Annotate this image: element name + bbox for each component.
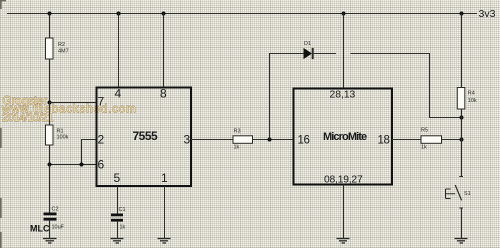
- svg-text:5: 5: [114, 171, 121, 185]
- svg-text:D1: D1: [304, 41, 311, 47]
- svg-text:10uF: 10uF: [52, 225, 65, 231]
- svg-text:R1: R1: [57, 128, 64, 134]
- node D1/R4 junction: [460, 116, 464, 120]
- ground (C1): [111, 239, 124, 244]
- node pin6/R1/C2 junction: [48, 163, 52, 167]
- wire pin7 to 7555: [50, 102, 97, 104]
- ground (C2): [43, 239, 57, 244]
- svg-text:1k: 1k: [234, 144, 240, 150]
- capacitor C1: [111, 207, 126, 230]
- ground (7555 pin1): [158, 239, 171, 244]
- wire junction up to diode: [270, 54, 304, 140]
- node R5/column junction: [460, 138, 464, 142]
- svg-text:28,13: 28,13: [330, 90, 356, 101]
- node rail/R2 junction: [48, 12, 52, 16]
- svg-text:6: 6: [98, 158, 105, 172]
- svg-text:10k: 10k: [468, 98, 477, 104]
- wire rail to MicroMite 28,13: [343, 14, 345, 89]
- capacitor C2: [44, 207, 65, 231]
- wire R1 bottom to pin6 wire: [49, 145, 51, 165]
- wire pin18 to R5: [392, 139, 421, 141]
- wire rail to pin4: [118, 14, 120, 88]
- svg-text:R4: R4: [468, 91, 475, 97]
- wire MicroMite bottom to ground: [343, 185, 345, 239]
- svg-text:4M7: 4M7: [58, 49, 69, 55]
- diode D1: [304, 41, 313, 59]
- resistor R5: [421, 128, 442, 151]
- resistor R3: [233, 128, 253, 150]
- svg-text:R2: R2: [58, 42, 65, 48]
- wire R3 to MicroMite pin16: [253, 139, 294, 141]
- wire rail to pin8: [163, 14, 165, 88]
- node rail/pin8 junction: [162, 12, 166, 16]
- wire diode cathode right and down: [314, 54, 462, 118]
- ground (MicroMite): [337, 239, 350, 244]
- svg-text:7555: 7555: [133, 129, 159, 143]
- svg-text:S1: S1: [464, 191, 471, 197]
- resistor R1: [46, 125, 69, 145]
- wire pin2 of 7555: [82, 140, 97, 165]
- node rail/pin4 junction: [117, 12, 121, 16]
- node rail/MicroMite-28,13 junction: [342, 12, 346, 16]
- left paper edge artifacts: [0, 0, 6, 248]
- op-amp U2 MicroMite box: [294, 89, 393, 185]
- wire rail to R4: [461, 14, 463, 88]
- node pin2/pin6 junction: [80, 163, 84, 167]
- svg-text:2014/10/21: 2014/10/21: [2, 112, 53, 124]
- wire pin6 node to C2: [49, 165, 51, 213]
- svg-text:C1: C1: [119, 207, 126, 213]
- node R3/D1 branch junction: [268, 138, 272, 142]
- svg-text:MicroMite: MicroMite: [323, 131, 367, 143]
- svg-text:16: 16: [298, 135, 310, 147]
- resistor R2: [46, 38, 69, 59]
- svg-text:3: 3: [184, 133, 191, 147]
- resistor R4: [457, 88, 477, 110]
- svg-text:1k: 1k: [120, 224, 126, 230]
- wire pin3 to R3: [191, 139, 233, 141]
- svg-text:08,19,27: 08,19,27: [324, 175, 363, 186]
- switch S1: [446, 177, 471, 209]
- wire switch to ground: [461, 208, 463, 238]
- svg-text:C2: C2: [52, 207, 59, 213]
- wire pin7-node to R1 top: [49, 103, 51, 126]
- wire C1 to ground: [117, 222, 119, 238]
- svg-text:3v3: 3v3: [479, 8, 496, 20]
- wire C2 to ground: [49, 221, 51, 238]
- ground (S1): [455, 239, 468, 244]
- wire R5 to right column: [442, 139, 462, 141]
- wire 3v3 power rail: [7, 13, 477, 15]
- svg-text:7: 7: [98, 95, 105, 109]
- wire pin1 to ground: [164, 186, 166, 238]
- wire pin5 to C1: [117, 186, 119, 214]
- svg-text:8: 8: [160, 87, 167, 101]
- svg-text:R3: R3: [234, 128, 241, 134]
- wire pin6 of 7555: [50, 164, 97, 166]
- svg-text:1: 1: [161, 171, 168, 185]
- op-amp U1 7555 box: [97, 88, 192, 187]
- node rail/R4 junction: [460, 12, 464, 16]
- svg-text:100k: 100k: [57, 135, 69, 141]
- svg-text:2: 2: [98, 133, 105, 147]
- svg-text:4: 4: [115, 87, 122, 101]
- wire rail to R2 top: [49, 14, 51, 39]
- svg-text:18: 18: [378, 135, 390, 147]
- wire R2 bottom to pin7 node: [49, 59, 51, 103]
- svg-text:R5: R5: [421, 128, 428, 134]
- wire R4 down through junctions to switch: [461, 109, 463, 176]
- svg-text:MLC: MLC: [30, 224, 50, 234]
- svg-text:1k: 1k: [421, 144, 427, 150]
- node pin7 junction: [48, 101, 52, 105]
